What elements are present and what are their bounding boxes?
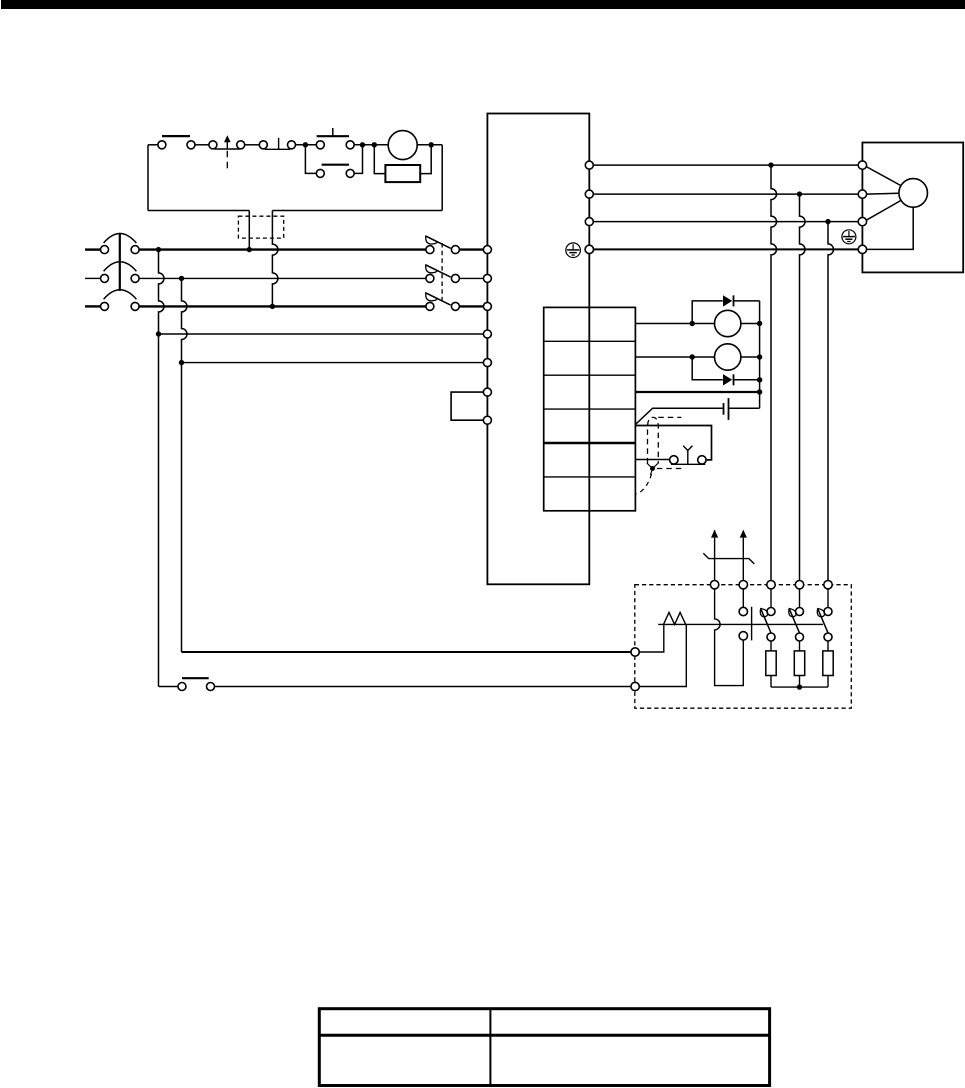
- node resistor bus: [797, 684, 802, 689]
- SP dashed capsule linkage: [648, 417, 659, 463]
- contact S2 closed with arrow actuator: [209, 141, 245, 149]
- separation symbol: [703, 553, 754, 564]
- SP Y actuator: [683, 446, 692, 465]
- pushbutton SB1 (NO): [316, 128, 354, 149]
- wire L3 stub: [85, 305, 101, 307]
- wire line4: [159, 333, 484, 335]
- wire drop 2: [800, 194, 806, 580]
- resistor R3: [799, 641, 801, 651]
- arrow out 2: [740, 530, 747, 538]
- wire control loop left vertical: [147, 145, 149, 211]
- wire stubs to overload contacts: [771, 589, 828, 608]
- lamp HL2: [715, 344, 741, 370]
- PE symbol right: [842, 230, 856, 244]
- diode D2 branch wire: [692, 357, 723, 380]
- KM pole 2: [426, 274, 484, 282]
- lamp bus vertical: [759, 301, 761, 408]
- breaker pole circles: [101, 246, 140, 311]
- heater FR zigzag: [664, 612, 686, 624]
- heater terminals: [631, 648, 639, 691]
- motor M: [899, 179, 928, 208]
- SP base line: [671, 463, 705, 465]
- battery GB plates: [723, 403, 725, 415]
- SP contact circles: [670, 456, 678, 464]
- node control junction A: [303, 142, 308, 147]
- enclosure top terminals: [710, 581, 832, 589]
- PE symbol left: [566, 243, 581, 258]
- diode D2: [723, 374, 732, 385]
- wire L2: [139, 277, 426, 279]
- node L1-control: [247, 247, 252, 252]
- node L2-v2: [179, 276, 184, 281]
- dashed linkage bottom line: [657, 468, 682, 470]
- plunger contact circles: [739, 607, 747, 615]
- wire control loop bottom rail: [148, 210, 249, 212]
- diode D1: [723, 295, 732, 306]
- SP frame: [635, 426, 711, 460]
- node dots on bus: [690, 321, 695, 326]
- lamp/motor M1 circle on rail: [388, 131, 417, 160]
- overload contact 2: [789, 608, 804, 642]
- breaker link bar: [119, 233, 121, 291]
- wire control top rail segments: [148, 144, 158, 146]
- wire drop to L3 with hops: [272, 211, 278, 307]
- arrow dashed stem: [226, 151, 228, 169]
- contact S3 closed with plunger tick: [259, 138, 295, 150]
- lamp HL1: [715, 310, 741, 336]
- contact S4 (NC) parallel branch: [305, 145, 362, 174]
- resistor common bus: [771, 686, 828, 688]
- wire control loop right vertical: [441, 145, 443, 211]
- wire L2 stub: [85, 277, 101, 279]
- battery GB wire: [635, 408, 722, 424]
- wire v1 down-left vertical: [159, 250, 165, 687]
- wire drop to L1: [248, 211, 250, 250]
- terminals on box right edge: [585, 161, 593, 253]
- resistor R4: [827, 641, 829, 651]
- wire R2: [593, 193, 858, 195]
- overload contact 1: [760, 608, 775, 642]
- dashed linkage top line: [658, 416, 681, 418]
- coupling dashed box T1: [238, 216, 283, 238]
- KM pole 3: [426, 302, 484, 310]
- dashed linkage curve to row6: [635, 474, 651, 494]
- node R1: [768, 162, 773, 167]
- wire drop 3: [828, 222, 834, 581]
- plunger bar: [751, 607, 753, 641]
- wire L1 stub: [85, 248, 101, 250]
- header bar: [1, 0, 965, 9]
- wire row3: [635, 391, 759, 393]
- trip bar: [658, 623, 823, 625]
- wire L1: [139, 248, 426, 250]
- wire row1: [635, 323, 714, 325]
- wire A (to heater): [182, 651, 632, 653]
- diode D1 branch wire: [692, 301, 723, 324]
- wire R3: [593, 221, 858, 223]
- wire row2: [635, 356, 714, 358]
- linkage pivot dot: [650, 466, 655, 471]
- node L1-v1: [156, 247, 161, 252]
- plunger switch loop wire: [715, 589, 744, 686]
- node R2: [797, 191, 802, 196]
- wire R1: [593, 164, 858, 166]
- arrow out 1: [714, 530, 716, 537]
- heater FR wiring: [639, 624, 664, 652]
- wire line5: [182, 362, 484, 364]
- wire drop 1: [771, 165, 777, 580]
- resistor R2: [770, 641, 772, 651]
- node R3: [825, 219, 830, 224]
- contact S1 (NC): [158, 136, 195, 149]
- motor terminals: [858, 161, 866, 254]
- terminals on box left edge: [483, 246, 491, 425]
- resistor R1 branch: [374, 145, 431, 174]
- wire L3: [139, 305, 426, 307]
- motor leads: [866, 167, 913, 250]
- node line4-v1: [156, 331, 161, 336]
- arrow actuator head: [224, 135, 231, 142]
- overload contact 3: [817, 608, 832, 642]
- node dots on top rail: [360, 142, 365, 147]
- KM pole 1: [426, 246, 484, 254]
- node line5-v2: [179, 360, 184, 365]
- breaker arcs: [104, 234, 137, 300]
- node L3-control: [270, 304, 275, 309]
- wire row5 to SP: [635, 459, 669, 461]
- wire v2 down vertical: [182, 278, 188, 652]
- wire R4 earth: [594, 248, 859, 250]
- jumper strap: [451, 392, 483, 420]
- wire arrow2 to plunger: [742, 589, 744, 607]
- wire B with NC contact S5: [159, 686, 179, 688]
- KM mechanical link dashed: [441, 243, 443, 302]
